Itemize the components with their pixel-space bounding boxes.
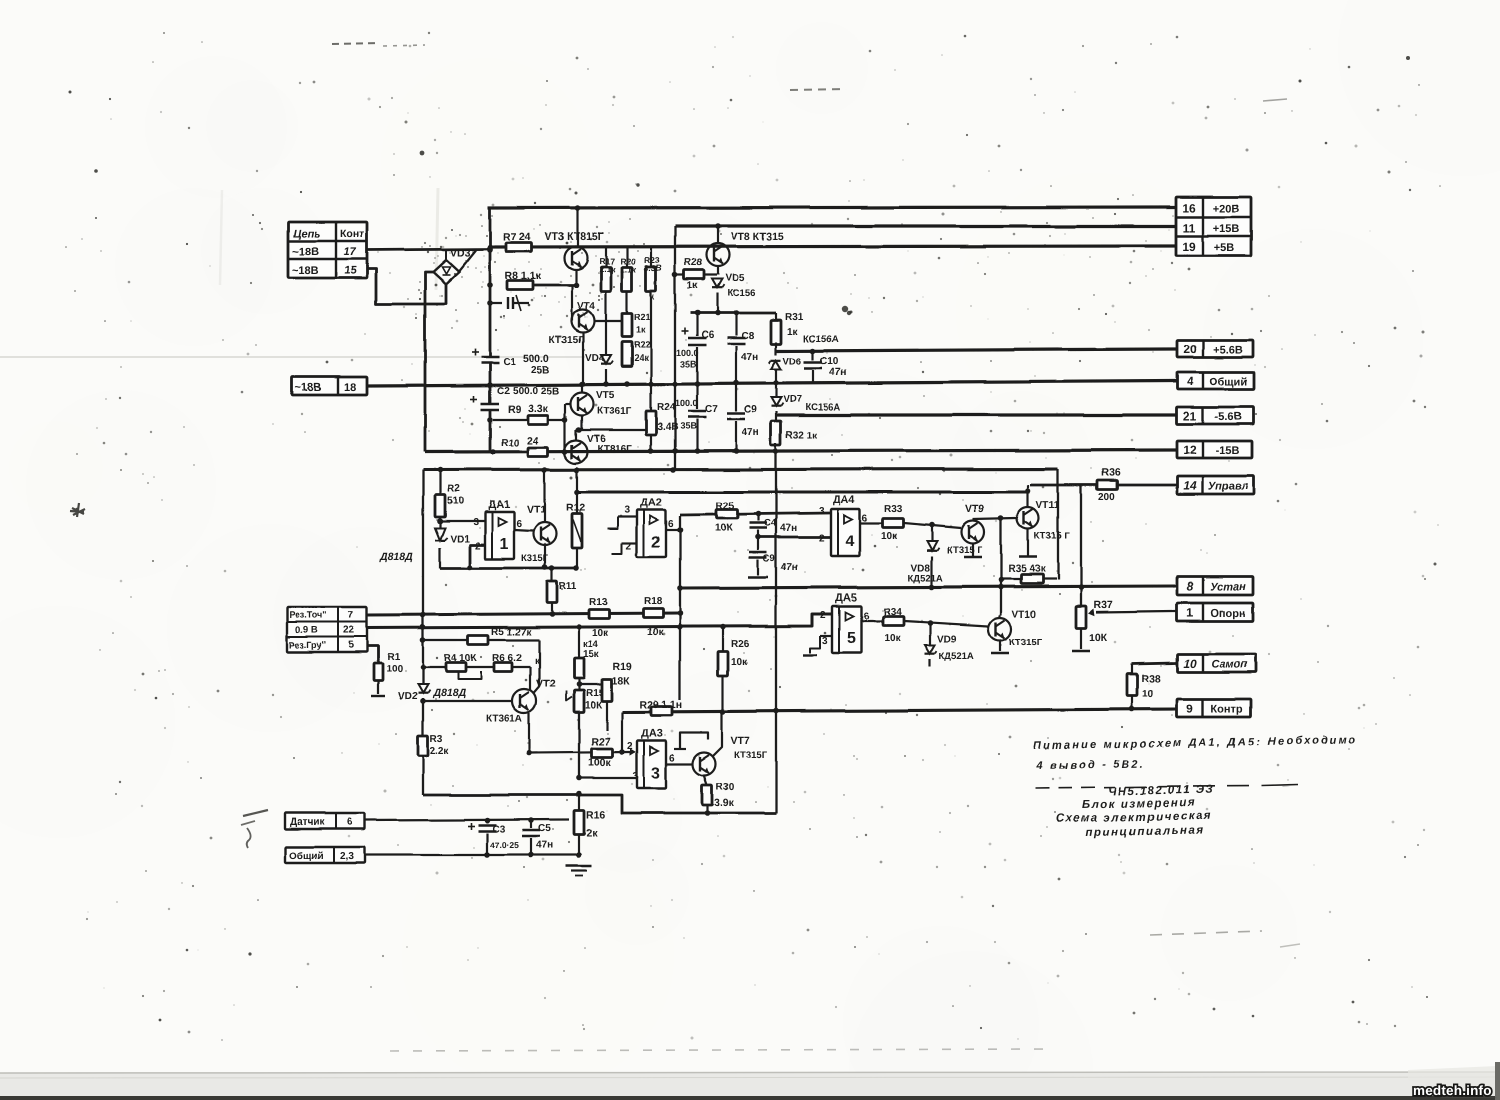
wire R5/R6 drops to VT2	[530, 640, 539, 694]
resistor R38	[1127, 664, 1160, 710]
zener VD7	[771, 383, 840, 413]
transistor VT4	[549, 301, 596, 384]
capacitor C5	[522, 820, 553, 855]
svg-text:VT3 КТ815Г: VT3 КТ815Г	[545, 231, 604, 243]
zener VD8	[908, 525, 943, 587]
svg-text:R30: R30	[716, 782, 735, 793]
svg-text:к: к	[650, 291, 655, 301]
svg-text:С4: С4	[764, 518, 777, 529]
svg-text:К315Г: К315Г	[521, 553, 549, 564]
wire bridge left leg down	[425, 272, 434, 452]
svg-text:10к: 10к	[647, 627, 664, 638]
svg-text:R29 1.1н: R29 1.1н	[639, 699, 682, 711]
svg-text:R7 24: R7 24	[503, 231, 531, 243]
svg-text:3: 3	[473, 517, 479, 528]
svg-text:1: 1	[1187, 606, 1194, 620]
resistor R1	[367, 646, 403, 696]
svg-text:R19: R19	[613, 661, 632, 673]
svg-text:КТ315Г: КТ315Г	[734, 750, 768, 761]
svg-text:КС156А: КС156А	[805, 402, 840, 413]
wire DA1 pin2	[467, 541, 485, 570]
svg-text:6: 6	[347, 817, 353, 828]
resistor R34	[883, 607, 989, 644]
wire +15V corner column	[672, 226, 678, 470]
svg-text:R8 1.1к: R8 1.1к	[505, 270, 542, 282]
svg-text:VD5: VD5	[725, 273, 745, 284]
svg-text:Д818Д: Д818Д	[432, 687, 466, 699]
connector cell pin 6 (Датчик)	[285, 813, 365, 829]
svg-text:С6: С6	[701, 330, 714, 341]
wire Общий line (pins 2,3)	[365, 852, 579, 858]
svg-text:3.9к: 3.9к	[714, 797, 735, 809]
connector pin 8 (Устан)	[1177, 577, 1253, 595]
svg-text:ДА2: ДА2	[640, 497, 662, 509]
wire ~18V pin17 feed	[367, 246, 493, 271]
svg-text:КТ816Г: КТ816Г	[597, 444, 632, 455]
svg-text:VT4: VT4	[577, 301, 596, 312]
svg-text:3: 3	[633, 771, 639, 782]
svg-text:1к: 1к	[687, 281, 699, 292]
resistor R32	[771, 411, 819, 451]
svg-text:R25: R25	[716, 501, 735, 512]
resistor R23	[644, 247, 662, 385]
svg-text:11: 11	[1183, 221, 1196, 235]
svg-text:25В: 25В	[531, 365, 549, 376]
svg-text:R21: R21	[634, 312, 651, 322]
capacitor C8	[727, 313, 758, 383]
wire +20V rail (to pin 16)	[488, 207, 1176, 208]
svg-text:Опорн: Опорн	[1210, 608, 1245, 620]
connector pin 21 (-5.6В)	[1177, 407, 1253, 424]
svg-text:47н: 47н	[742, 427, 759, 438]
svg-text:10К: 10К	[1089, 632, 1108, 644]
op-amp DA4	[819, 494, 860, 556]
resistor R30	[702, 782, 735, 813]
svg-text:16: 16	[1182, 201, 1196, 215]
wire VD2 node to VT2	[423, 700, 512, 702]
zener VD6	[769, 356, 801, 383]
resistor R28	[675, 258, 717, 292]
svg-text:+15В: +15В	[1213, 223, 1240, 235]
svg-text:Цепь: Цепь	[293, 228, 320, 240]
svg-text:2.2к: 2.2к	[430, 746, 450, 757]
wire DA5 pin3	[803, 636, 832, 655]
wire under DA1	[440, 564, 579, 571]
resistor R24	[646, 385, 678, 451]
wire DA1 pin3	[440, 517, 485, 528]
resistor R27	[529, 736, 636, 769]
svg-text:1.1к: 1.1к	[620, 264, 637, 274]
wire VT9 to VT11 base	[973, 518, 1016, 519]
capacitor near R8	[490, 295, 529, 311]
zener VD5	[712, 273, 755, 313]
wire lower-left edge / VD2-R3 column	[420, 470, 426, 795]
svg-text:R27: R27	[591, 736, 610, 748]
svg-text:3: 3	[624, 505, 630, 516]
svg-text:R10: R10	[501, 438, 520, 449]
wire R8 to VT4 base	[533, 282, 579, 321]
svg-text:-15В: -15В	[1216, 445, 1240, 457]
wire DA5 output pin6	[861, 611, 883, 622]
svg-text:R31: R31	[785, 312, 804, 323]
svg-text:VT5: VT5	[596, 390, 615, 401]
wire Датчик line (pin 6)	[365, 817, 569, 823]
resistor R36	[1097, 467, 1120, 503]
capacitor C9	[727, 383, 759, 450]
zener VD1	[379, 528, 470, 568]
wire Контр rail with R29 (to pin 9)	[622, 706, 1176, 715]
svg-text:R12: R12	[566, 502, 585, 514]
svg-text:КТ315Г: КТ315Г	[1009, 637, 1043, 648]
svg-text:Управл: Управл	[1208, 481, 1248, 493]
wire +15V rail (to pin 11)	[675, 224, 1176, 227]
svg-text:R11: R11	[559, 581, 577, 592]
svg-text:принципиальная: принципиальная	[1086, 825, 1204, 839]
transistor VT11	[1017, 485, 1070, 557]
svg-text:Контр: Контр	[1211, 704, 1243, 716]
wire R37 feed column	[1080, 485, 1082, 606]
svg-text:12: 12	[1183, 443, 1197, 457]
svg-text:VT9: VT9	[965, 503, 984, 515]
svg-text:10к: 10к	[884, 633, 901, 644]
svg-text:R3: R3	[430, 734, 443, 745]
svg-text:VD3: VD3	[450, 247, 471, 259]
resistor R14	[574, 627, 600, 690]
wire common rail (to pin 4)	[367, 380, 1176, 388]
connector pin 10 (Самоп)	[1177, 654, 1256, 672]
resistor R33	[881, 504, 961, 542]
svg-text:VD2: VD2	[398, 691, 418, 702]
svg-text:17: 17	[344, 246, 357, 258]
svg-text:С5: С5	[538, 823, 551, 834]
svg-text:21: 21	[1183, 409, 1197, 423]
svg-text:R26: R26	[731, 639, 750, 650]
resistor R13	[589, 597, 609, 639]
svg-text:R1: R1	[387, 652, 400, 663]
svg-text:1: 1	[500, 536, 509, 553]
wire x1003 column	[998, 515, 1004, 615]
svg-text:24: 24	[527, 435, 539, 447]
transistor VT9	[947, 503, 985, 557]
svg-text:35В: 35В	[680, 359, 697, 369]
svg-text:47.0·25: 47.0·25	[490, 840, 519, 850]
resistor R7	[503, 231, 532, 252]
capacitor C10	[804, 351, 847, 382]
op-amp DA1	[485, 499, 514, 559]
svg-text:R37: R37	[1094, 599, 1113, 611]
svg-text:С9: С9	[744, 404, 757, 415]
handwritten note stamp	[1035, 784, 1298, 839]
wire left column (C1/C2 column)	[487, 208, 493, 452]
svg-text:R38: R38	[1141, 673, 1160, 685]
svg-text:19: 19	[1182, 240, 1196, 254]
svg-text:6: 6	[516, 519, 522, 530]
svg-text:ДА1: ДА1	[488, 499, 510, 511]
resistor R29	[639, 699, 682, 716]
svg-text:47н: 47н	[780, 523, 797, 534]
svg-text:47н: 47н	[829, 366, 847, 378]
wire R29 corner to DA3 pin2	[619, 712, 625, 755]
svg-text:Блок измерения: Блок измерения	[1082, 797, 1196, 811]
transistor VT1	[521, 470, 557, 568]
wire -15V rail (to pin 12)	[425, 448, 1176, 455]
resistor R19	[579, 661, 632, 731]
wire Опорн arrow (pin 1)	[1088, 609, 1176, 616]
svg-text:6: 6	[668, 519, 674, 530]
svg-text:VD6: VD6	[783, 356, 801, 367]
resistor R15	[566, 688, 605, 778]
transistor VT3	[545, 205, 604, 285]
svg-text:Рез.Гру": Рез.Гру"	[289, 640, 326, 650]
connector pin 1 (Опорн)	[1177, 603, 1253, 621]
svg-text:5: 5	[348, 640, 354, 651]
svg-text:2: 2	[627, 741, 633, 752]
svg-text:2: 2	[820, 610, 826, 621]
zener VD2	[398, 684, 466, 702]
svg-text:24к: 24к	[634, 353, 649, 363]
svg-text:4: 4	[846, 533, 855, 550]
resistor R22	[622, 340, 651, 366]
svg-text:2к: 2к	[586, 827, 598, 839]
connector pin 14 (Управл)	[1177, 476, 1254, 494]
svg-text:VD4: VD4	[585, 353, 605, 364]
svg-text:8: 8	[1187, 580, 1194, 594]
wire Самоп stub (to pin 10)	[1132, 663, 1176, 664]
wire right corner down to R35	[1057, 469, 1059, 580]
svg-text:100: 100	[386, 664, 403, 675]
svg-text:2: 2	[626, 541, 632, 552]
svg-text:47н: 47н	[781, 562, 798, 573]
transistor VT5	[571, 386, 633, 417]
svg-text:ДА4: ДА4	[833, 494, 856, 506]
connector table X2 (Рез.Точ 7 / 0.9В 22 / Рез.Гру 5)	[287, 607, 367, 652]
wire ~18V pin15 feed	[367, 269, 446, 304]
capacitor C4	[749, 514, 797, 537]
resistor R5	[423, 627, 539, 645]
resistor R21	[622, 312, 651, 337]
svg-text:22: 22	[343, 625, 355, 636]
resistor R18	[643, 596, 664, 638]
svg-text:R33: R33	[884, 504, 903, 515]
capacitor C2	[471, 386, 559, 410]
svg-text:18: 18	[344, 382, 356, 394]
svg-text:2,3: 2,3	[340, 851, 354, 862]
wire DA1 output pin6	[514, 519, 533, 531]
svg-text:10: 10	[1183, 657, 1197, 671]
wire Рез.Точ line (pin7)	[367, 610, 683, 617]
capacitor C9b	[748, 537, 798, 577]
svg-text:С3: С3	[492, 824, 505, 835]
svg-text:C1: C1	[503, 357, 516, 368]
wire bottom loop rail	[423, 795, 776, 816]
wire 0.9В line (pin22)	[367, 614, 833, 630]
transistor VT2	[486, 678, 555, 756]
resistor R31	[771, 312, 838, 355]
svg-text:R6 6.2: R6 6.2	[492, 653, 522, 664]
svg-text:47н: 47н	[536, 840, 553, 851]
ground symbol	[566, 866, 592, 876]
wire DA3 output pin6	[666, 753, 692, 764]
wire DA3 pin3	[576, 775, 637, 781]
svg-text:100.0: 100.0	[676, 348, 699, 358]
svg-text:5: 5	[847, 630, 856, 647]
svg-text:9: 9	[1187, 702, 1194, 716]
svg-text:500.0: 500.0	[523, 353, 549, 365]
svg-text:1к: 1к	[636, 325, 646, 335]
svg-text:R24: R24	[657, 402, 676, 413]
svg-text:10: 10	[1142, 689, 1154, 700]
wire Устан rail (to pin 8)	[680, 584, 1176, 590]
bracket above VT7	[674, 733, 708, 749]
svg-text:14: 14	[1183, 479, 1197, 493]
svg-text:КД521А: КД521А	[939, 651, 974, 662]
connector pin 9 (Контр)	[1177, 699, 1251, 717]
svg-text:Устан: Устан	[1210, 582, 1246, 594]
svg-text:6: 6	[862, 513, 868, 524]
svg-text:2: 2	[475, 541, 481, 552]
svg-text:ДА3: ДА3	[641, 728, 663, 740]
svg-text:VT7: VT7	[731, 735, 750, 747]
connector table X1 (Цепь/Конт, pins 17/15)	[288, 222, 367, 278]
svg-text:10К: 10К	[585, 700, 603, 711]
svg-text:0.9 В: 0.9 В	[295, 625, 318, 636]
resistor R10	[501, 435, 548, 457]
connector pin 12 (-15В)	[1177, 441, 1252, 458]
potentiometer R37	[1072, 599, 1113, 651]
svg-text:С8: С8	[741, 331, 754, 342]
wire VT5-VT6 collectors	[576, 415, 654, 441]
svg-text:~18В: ~18В	[295, 382, 322, 394]
svg-text:200: 200	[1098, 492, 1115, 503]
resistor R35	[1001, 564, 1056, 584]
svg-text:VT8 КТ315: VT8 КТ315	[731, 231, 784, 243]
wire DA2out vertical x680	[677, 516, 683, 700]
resistor R8	[505, 270, 542, 290]
svg-text:3: 3	[819, 506, 825, 517]
resistor R17	[599, 247, 616, 355]
svg-text:3: 3	[822, 636, 828, 647]
handwritten note 1	[1033, 734, 1358, 772]
svg-text:R5 1.27к: R5 1.27к	[491, 627, 532, 638]
wire DA2 pin2	[612, 541, 637, 554]
svg-text:R9: R9	[508, 405, 521, 416]
svg-text:6: 6	[669, 753, 675, 764]
transistor VT7	[693, 712, 768, 785]
svg-text:+20В: +20В	[1213, 203, 1240, 215]
svg-text:КС156: КС156	[727, 288, 755, 299]
op-amp DA3	[627, 728, 666, 788]
svg-text:Рез.Точ": Рез.Точ"	[289, 610, 326, 620]
svg-text:6: 6	[863, 611, 869, 622]
svg-text:2: 2	[819, 533, 825, 544]
diode VD4	[585, 353, 613, 384]
svg-text:10к: 10к	[592, 628, 609, 639]
svg-text:VT10: VT10	[1012, 609, 1036, 620]
svg-text:ЧН5.182.011 ЭЗ: ЧН5.182.011 ЭЗ	[1108, 784, 1215, 798]
svg-text:КТ361Г: КТ361Г	[597, 406, 632, 417]
svg-text:С9: С9	[763, 553, 775, 564]
svg-text:510: 510	[447, 496, 464, 507]
svg-text:35В: 35В	[680, 421, 697, 431]
svg-text:КТ315 Г: КТ315 Г	[947, 545, 983, 556]
svg-text:4: 4	[1187, 374, 1194, 388]
connector pin 20 (+5.6В)	[1177, 340, 1253, 357]
svg-text:КТ315Г: КТ315Г	[549, 335, 584, 346]
svg-text:7: 7	[348, 610, 354, 621]
resistor R26	[718, 627, 750, 711]
svg-text:VT11: VT11	[1036, 500, 1060, 511]
capacitor C7	[675, 384, 718, 451]
resistor R25	[680, 501, 830, 534]
wire DA4 pin2 line	[755, 533, 830, 544]
svg-text:R36: R36	[1101, 467, 1120, 479]
op-amp DA2	[637, 497, 666, 557]
svg-text:VD9: VD9	[937, 634, 957, 645]
svg-text:R4 10К: R4 10К	[444, 653, 478, 664]
resistor R11	[547, 568, 577, 615]
svg-text:3.3В: 3.3В	[644, 263, 662, 273]
svg-text:Общий: Общий	[1209, 376, 1247, 388]
wire DA2 output pin6	[666, 519, 683, 533]
wire long vertical x776	[775, 451, 777, 813]
svg-text:1к: 1к	[787, 327, 799, 338]
resistor R20	[620, 247, 637, 313]
svg-text:2: 2	[652, 534, 661, 551]
svg-text:R28: R28	[684, 258, 703, 269]
svg-text:10к: 10к	[731, 657, 748, 668]
svg-text:18К: 18К	[612, 675, 631, 687]
connector pins 16/11/19 (+20В,+15В,+5В)	[1176, 197, 1251, 256]
svg-text:47н: 47н	[741, 352, 758, 363]
wire DA2 pin3	[608, 505, 637, 529]
svg-text:100к: 100к	[588, 757, 612, 769]
resistor R4 and R6	[423, 653, 540, 679]
svg-text:C2 500.0 25В: C2 500.0 25В	[497, 386, 559, 397]
wire VT4 to R21	[595, 318, 630, 324]
resistor R16	[574, 791, 605, 858]
capacitor C6	[676, 313, 714, 384]
svg-text:R18: R18	[644, 596, 663, 607]
svg-text:~18В: ~18В	[292, 246, 319, 258]
svg-text:100.0: 100.0	[675, 398, 698, 408]
wire DA4 output pin6	[860, 513, 883, 524]
svg-text:Д818Д: Д818Д	[379, 551, 413, 563]
svg-text:4 вывод - 5В2.: 4 вывод - 5В2.	[1035, 758, 1145, 772]
svg-text:3: 3	[652, 765, 661, 782]
wire -5.6V rail (to pin 21)	[776, 413, 1176, 416]
svg-text:-5.6В: -5.6В	[1215, 411, 1242, 423]
wire inner frame rail	[577, 488, 1031, 494]
svg-text:+5.6В: +5.6В	[1213, 344, 1243, 356]
transistor VT10	[989, 609, 1043, 653]
svg-text:R2: R2	[447, 484, 460, 495]
svg-text:КС156А: КС156А	[803, 334, 838, 345]
svg-text:R13: R13	[589, 597, 608, 608]
capacitor C1	[472, 349, 550, 377]
svg-text:ДА5: ДА5	[835, 592, 857, 604]
wire lower-section top rail	[423, 467, 1058, 473]
capacitor C3	[468, 820, 520, 855]
svg-text:15: 15	[344, 265, 357, 277]
svg-text:Датчик: Датчик	[290, 817, 326, 828]
svg-text:2.1к: 2.1к	[599, 264, 616, 274]
svg-text:R34: R34	[883, 607, 902, 618]
svg-text:15к: 15к	[583, 649, 600, 660]
resistor R9	[493, 403, 565, 425]
svg-text:medteh.info: medteh.info	[1413, 1083, 1492, 1098]
resistor R12	[566, 470, 585, 568]
svg-text:VD7: VD7	[783, 394, 801, 405]
